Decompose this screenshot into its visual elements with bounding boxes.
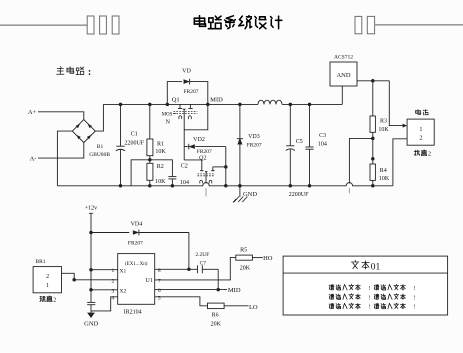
decorative header line left	[0, 24, 87, 26]
resistor R6	[208, 303, 225, 309]
label MID main	[210, 96, 223, 103]
wire gate to Q2	[184, 160, 202, 171]
label U1	[146, 278, 153, 284]
label R4 10K	[379, 176, 390, 182]
resistor R5	[236, 255, 253, 260]
wire C7 to MID node	[217, 269, 219, 289]
bridge rectifier B1	[72, 120, 95, 143]
svg-text:FR207: FR207	[197, 149, 212, 155]
connector BR1 box	[33, 267, 61, 293]
decorative glyph box 4	[355, 16, 362, 33]
wire R1 to R2	[149, 156, 151, 164]
label VD2 FR207	[197, 149, 212, 155]
capacitor C3	[305, 104, 313, 185]
decorative header line right	[375, 24, 463, 26]
svg-text:R2: R2	[157, 164, 164, 170]
wire feedback below rail	[348, 188, 350, 193]
wire top rail left section	[103, 103, 258, 105]
label pin 6	[158, 288, 161, 294]
svg-text:LO: LO	[249, 304, 258, 311]
node A+ label	[28, 109, 37, 116]
label Q1	[172, 96, 180, 103]
svg-text:VD3: VD3	[248, 134, 260, 140]
svg-text:C5: C5	[296, 139, 303, 145]
svg-text:N: N	[166, 119, 171, 125]
label pin 3	[112, 288, 115, 294]
pin 5 wire	[155, 297, 208, 306]
label 主电路:	[57, 67, 91, 79]
label C1	[131, 132, 138, 138]
svg-text:Q2: Q2	[199, 155, 206, 161]
svg-text:!: !	[368, 305, 370, 311]
capacitor C5	[286, 104, 295, 185]
text box body line 3	[329, 303, 415, 311]
pin 4 wire	[91, 297, 118, 311]
svg-text:2.2UF: 2.2UF	[195, 252, 209, 258]
label MID lower	[228, 287, 241, 294]
label 2200UF	[124, 140, 144, 146]
resistor R3	[370, 116, 375, 132]
svg-text:B1: B1	[97, 144, 104, 150]
junction dot C3 bottom	[308, 184, 312, 188]
label VD FR207	[184, 89, 199, 95]
label pin 2	[112, 278, 115, 284]
svg-text:VD4: VD4	[131, 221, 143, 227]
capacitor C7	[198, 265, 219, 273]
op-amp U2 AND box	[330, 62, 357, 86]
label C2 104	[180, 180, 189, 186]
svg-text:IR2104: IR2104	[124, 309, 142, 315]
svg-text:10K: 10K	[379, 176, 390, 182]
resistor R4	[370, 164, 375, 180]
svg-text:5: 5	[158, 295, 161, 301]
svg-text:X2: X2	[120, 288, 127, 294]
label pin 1	[112, 268, 115, 274]
label 联箱 2	[40, 296, 56, 304]
svg-text:R5: R5	[240, 247, 247, 253]
wire bridge right corner to top rail	[95, 104, 103, 131]
svg-text:FR207: FR207	[247, 142, 262, 148]
junction dot MID node	[216, 288, 220, 292]
wire Q2 drain to VD2 net	[213, 166, 226, 168]
svg-text:(EX1...Xn): (EX1...Xn)	[125, 262, 148, 267]
svg-text:R6: R6	[212, 312, 219, 318]
pin 7 wire	[155, 258, 236, 280]
svg-text:MID: MID	[210, 96, 223, 103]
wire VD loop right	[190, 82, 208, 105]
label R6	[212, 312, 219, 318]
junction dot C5 top	[289, 103, 293, 107]
wire VD4 line	[91, 232, 129, 234]
label pin 4	[112, 295, 115, 301]
label BR1 pin 2	[46, 274, 49, 280]
svg-text:U1: U1	[146, 278, 153, 284]
label battery pin 2	[419, 135, 422, 142]
junction dot C5 bottom	[289, 184, 293, 188]
diode VD4	[133, 230, 189, 236]
label 电池	[416, 109, 429, 115]
svg-text:ACS712: ACS712	[334, 55, 353, 61]
op-amp U1 IR2104 box	[118, 254, 155, 305]
wire bottom rail	[57, 183, 393, 186]
svg-text:R4: R4	[380, 168, 387, 174]
label Q2	[199, 155, 206, 161]
svg-text:+12v: +12v	[85, 206, 97, 212]
junction dot R3 bottom	[371, 137, 375, 141]
svg-text:!: !	[368, 295, 370, 301]
wire Q1 to MID branch	[184, 104, 208, 129]
junction dot C1 bottom	[119, 184, 123, 188]
label C2	[181, 164, 188, 170]
svg-text:7: 7	[158, 278, 161, 284]
title text 电路系统设计	[194, 16, 281, 29]
wire R2 to bottom rail	[149, 180, 151, 186]
battery box	[407, 119, 434, 145]
label X1	[120, 268, 127, 274]
label R1	[157, 142, 164, 148]
svg-text:104: 104	[318, 141, 327, 147]
wire R6 to LO	[224, 305, 248, 307]
label GND lower	[84, 320, 98, 327]
label EX1..Xn	[125, 262, 148, 267]
junction dot C3 top	[308, 103, 312, 107]
svg-text:AND: AND	[336, 72, 350, 79]
label LO	[249, 304, 258, 311]
svg-text:1: 1	[419, 126, 422, 133]
label ACS712	[334, 55, 353, 61]
svg-text:MOS: MOS	[162, 113, 173, 118]
junction dot VD3 top	[238, 103, 242, 107]
junction dot VD3 bottom GND	[238, 184, 242, 188]
svg-text:C2: C2	[181, 164, 188, 170]
pin 8 wire	[155, 268, 198, 270]
svg-text:3: 3	[112, 288, 115, 294]
svg-text:FR207: FR207	[184, 89, 199, 95]
capacitor C2	[168, 177, 176, 186]
svg-text:C1: C1	[131, 132, 138, 138]
junction dot C1 top	[119, 103, 123, 107]
wire divider mid to C2	[150, 160, 173, 177]
junction dot R2 bottom	[148, 184, 152, 188]
svg-text:2: 2	[419, 135, 422, 142]
wire top rail to R1	[149, 104, 151, 139]
wire feedback left leg	[349, 138, 372, 183]
svg-text:2: 2	[46, 274, 49, 280]
junction dot VD loop left	[166, 103, 170, 107]
label pin 7	[158, 278, 161, 284]
ground lower GND	[87, 302, 95, 318]
label C5	[296, 139, 303, 145]
ground GND chassis	[233, 186, 247, 203]
wire R3 top	[372, 81, 374, 116]
junction dot pin3	[89, 288, 93, 292]
label R4	[380, 168, 387, 174]
svg-text:!: !	[413, 305, 415, 311]
svg-text:10K: 10K	[378, 127, 389, 133]
decorative glyph box 5	[367, 16, 374, 33]
wire top rail to AND box	[341, 86, 343, 104]
svg-text:GBU80B: GBU80B	[89, 152, 110, 158]
junction dot R1 top	[148, 103, 152, 107]
diode VD3	[237, 138, 243, 145]
text box title 文本 01	[351, 260, 380, 272]
wire VD4 down to C7 node	[188, 233, 190, 270]
junction dot VD2 bottom	[224, 184, 228, 188]
transistor Q1 MOSFET	[174, 104, 198, 119]
wire Q1 center down	[183, 111, 185, 147]
decorative glyph box 3	[112, 16, 119, 34]
svg-text:1: 1	[46, 283, 49, 289]
label R2 10K	[155, 179, 166, 185]
junction dot VD4 branch	[89, 231, 93, 235]
wire bridge left corner to bottom rail	[57, 131, 72, 186]
label HO	[263, 255, 273, 262]
svg-text:01: 01	[371, 262, 381, 272]
wire VD2 cathode vertical	[225, 147, 227, 186]
junction dot divider mid	[148, 158, 152, 162]
junction dot R4 bottom	[371, 184, 375, 188]
svg-text:2200UF: 2200UF	[289, 192, 309, 198]
svg-text:4: 4	[112, 295, 115, 301]
text box body line 1	[329, 284, 415, 292]
svg-text:2: 2	[428, 152, 431, 158]
label AND	[336, 72, 350, 79]
wire A+ to bridge	[38, 112, 84, 120]
svg-text:C7: C7	[200, 260, 207, 266]
label R5	[240, 247, 247, 253]
label 2.2UF	[195, 252, 209, 258]
svg-text:2200UF: 2200UF	[124, 140, 144, 146]
wire R4 bottom	[372, 180, 374, 185]
text box header line	[283, 272, 448, 274]
pin 6 wire	[155, 289, 227, 291]
svg-text:X1: X1	[120, 268, 127, 274]
wire VD3 vertical	[239, 104, 241, 185]
label GND	[243, 191, 257, 198]
wire AND out	[357, 80, 389, 82]
svg-text:GND: GND	[243, 191, 257, 198]
label R3	[380, 118, 387, 124]
svg-text:6: 6	[158, 288, 161, 294]
transistor Q2 MOSFET	[198, 167, 215, 184]
svg-text::: :	[88, 67, 91, 78]
label 2200UF output	[289, 192, 309, 198]
svg-text:HO: HO	[263, 255, 273, 262]
svg-text:R3: R3	[380, 118, 387, 124]
label R3 10K	[378, 127, 389, 133]
wire top rail right section	[282, 103, 342, 105]
diode VD	[178, 79, 190, 85]
label 机箱2 battery	[414, 150, 431, 158]
wire Q2 source below rail	[205, 188, 207, 196]
svg-text:!: !	[413, 286, 415, 292]
junction dot pin2 corner	[72, 278, 76, 282]
diode VD2	[184, 144, 226, 150]
svg-text:!: !	[368, 286, 370, 292]
svg-text:104: 104	[180, 180, 189, 186]
label VD	[182, 68, 191, 74]
svg-text:20K: 20K	[240, 266, 251, 272]
label VD4 FR207	[128, 240, 143, 246]
decorative glyph box 1	[87, 16, 94, 34]
svg-text:VD2: VD2	[193, 137, 205, 143]
label C3 104	[318, 141, 327, 147]
resistor R1	[147, 139, 153, 156]
junction dot MID	[206, 103, 210, 107]
pin 3 wire	[91, 289, 118, 291]
label pin 8	[158, 268, 161, 274]
svg-text:C3: C3	[319, 133, 326, 139]
wire VD loop	[167, 82, 178, 105]
svg-text:GND: GND	[84, 320, 98, 327]
wire R3 bottom	[372, 132, 374, 164]
svg-text:Q1: Q1	[172, 96, 180, 103]
svg-text:VD: VD	[182, 68, 191, 74]
svg-text:1: 1	[112, 268, 115, 274]
svg-text:!: !	[413, 295, 415, 301]
pin 1 wire	[91, 269, 118, 271]
label C3	[319, 133, 326, 139]
junction dot VD2 right mid	[224, 165, 228, 169]
svg-text:BR1: BR1	[35, 259, 45, 265]
svg-text:A-: A-	[30, 156, 37, 163]
junction dot R4 top	[371, 157, 375, 161]
label pin 5	[158, 295, 161, 301]
label IR2104	[124, 309, 142, 315]
label +12v	[85, 206, 97, 212]
wire +12v rail	[90, 213, 92, 302]
text box frame	[283, 256, 448, 315]
junction dot pin1	[89, 268, 93, 272]
pin 2 wire	[62, 273, 118, 280]
inductor L1	[258, 100, 282, 104]
junction dot C2 bottom	[171, 184, 175, 188]
node A- label	[30, 156, 37, 163]
label R5 20K	[240, 266, 251, 272]
wire Q1 center to VD2	[183, 147, 185, 160]
svg-text:2: 2	[53, 298, 56, 304]
label GBU80B	[89, 152, 110, 158]
label VD2	[193, 137, 205, 143]
svg-text:2: 2	[112, 278, 115, 284]
label BR1	[35, 259, 45, 265]
svg-text:R1: R1	[157, 142, 164, 148]
wire Q2 source down	[205, 173, 207, 183]
wire +12v tick	[89, 212, 93, 214]
wire A- to bridge	[38, 142, 84, 158]
arrowhead into battery	[403, 124, 408, 128]
svg-text:MID: MID	[228, 287, 241, 294]
label battery pin 1	[419, 126, 422, 133]
svg-text:FR207: FR207	[128, 240, 143, 246]
label R2	[157, 164, 164, 170]
wire battery pin2	[393, 139, 407, 186]
label MOS	[162, 113, 176, 118]
label B1	[97, 144, 104, 150]
text box body line 2	[329, 294, 415, 302]
svg-text:8: 8	[158, 268, 161, 274]
label VD4	[131, 221, 143, 227]
capacitor C1	[116, 104, 125, 185]
wire R5 to HO	[252, 257, 262, 259]
wire divider mid to left leg	[131, 160, 150, 186]
svg-text:A+: A+	[28, 109, 37, 116]
svg-text:10K: 10K	[155, 149, 166, 155]
junction dot R3 top	[371, 79, 375, 83]
decorative glyph box 2	[100, 16, 107, 34]
svg-text:10K: 10K	[155, 179, 166, 185]
label X2	[120, 288, 127, 294]
label C7	[200, 260, 207, 266]
label R1 10K	[155, 149, 166, 155]
svg-text:20K: 20K	[211, 321, 222, 327]
label BR1 pin 1	[46, 283, 49, 289]
junction dot C7 node	[187, 268, 191, 272]
label VD3 FR207	[247, 142, 262, 148]
resistor R2	[147, 163, 153, 180]
label N	[166, 119, 171, 125]
wire to battery pin1	[389, 81, 404, 126]
label R6 20K	[211, 321, 222, 327]
label VD3	[248, 134, 260, 140]
